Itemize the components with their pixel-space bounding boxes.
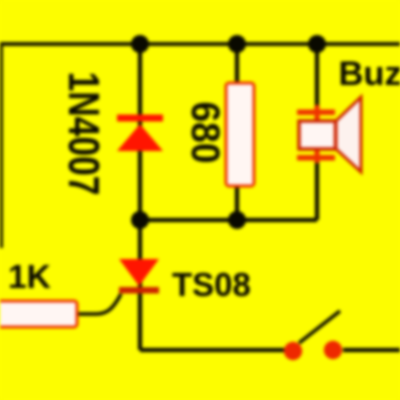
svg-text:1N4007: 1N4007 [59,72,107,196]
svg-text:Buzzer: Buzzer [339,55,400,93]
svg-text:TS08: TS08 [172,266,251,303]
svg-text:680: 680 [183,101,228,163]
svg-text:1K: 1K [8,259,51,296]
